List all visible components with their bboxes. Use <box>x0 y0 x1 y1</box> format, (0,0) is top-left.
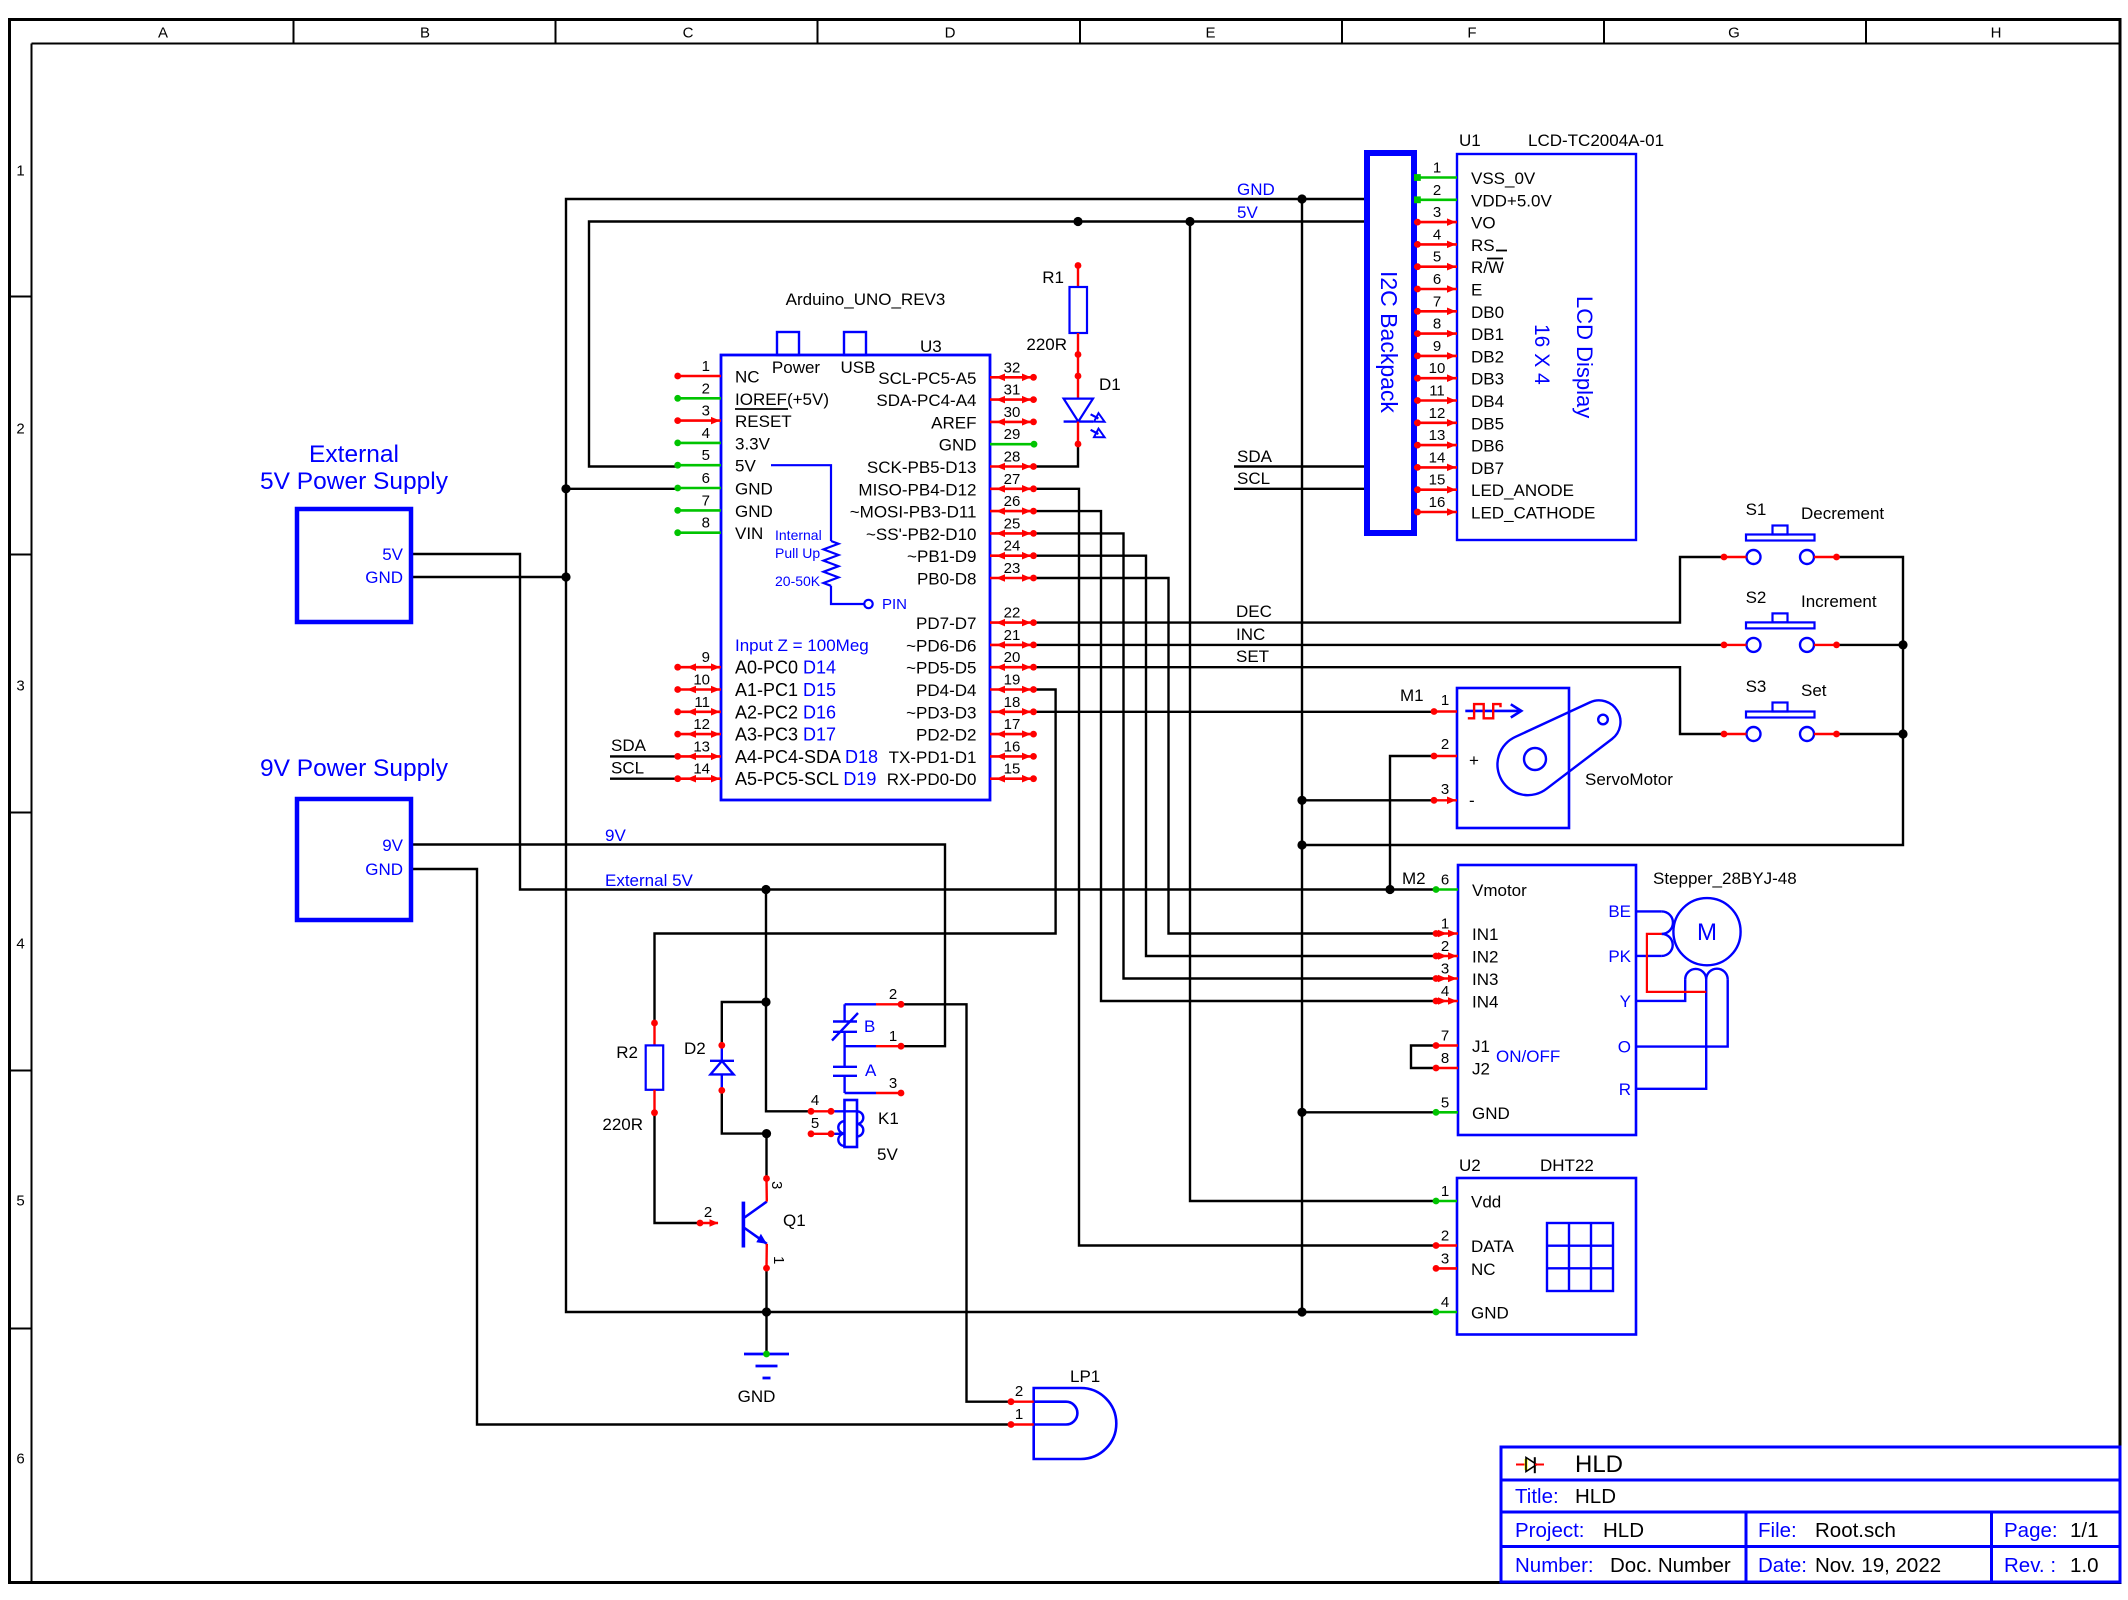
svg-text:5V: 5V <box>1237 203 1258 222</box>
relay contact B <box>832 1004 875 1040</box>
svg-text:5: 5 <box>16 1193 24 1210</box>
svg-text:NC: NC <box>1471 1260 1496 1279</box>
wire D12 to DHT22 DATA <box>1035 489 1434 1246</box>
wire 5V top <box>589 222 1367 467</box>
svg-text:R/W: R/W <box>1471 258 1504 277</box>
wire D3 to servo pin1 <box>1035 711 1434 713</box>
svg-text:U1: U1 <box>1459 131 1481 150</box>
svg-text:18: 18 <box>1004 694 1021 711</box>
svg-text:GND: GND <box>1237 180 1275 199</box>
svg-text:5: 5 <box>1433 249 1441 266</box>
arduino pin 1 stub <box>674 358 721 379</box>
svg-text:TX-PD1-D1: TX-PD1-D1 <box>889 748 977 767</box>
LP1 pin 2 stub <box>1008 1383 1034 1405</box>
svg-text:11: 11 <box>1429 383 1445 400</box>
junction 5V to DHT Vdd <box>1185 217 1194 226</box>
arduino right pin names <box>850 369 977 789</box>
arduino pin 22 stub <box>990 605 1037 627</box>
svg-text:HLD: HLD <box>1575 1485 1616 1508</box>
svg-text:Set: Set <box>1801 681 1827 700</box>
svg-text:1: 1 <box>1441 1183 1449 1200</box>
arduino pin 19 stub <box>990 672 1037 694</box>
svg-text:DB1: DB1 <box>1471 325 1504 344</box>
svg-text:5V: 5V <box>382 545 403 564</box>
svg-text:1/1: 1/1 <box>2070 1519 2099 1542</box>
svg-text:3: 3 <box>768 1181 785 1189</box>
servo motor M1 body <box>1400 686 1673 828</box>
lcd pin 1 stub <box>1414 160 1457 181</box>
svg-text:USB: USB <box>841 358 876 377</box>
wire External5V to relay coil pin4 <box>766 890 811 1112</box>
svg-text:U2: U2 <box>1459 1156 1481 1175</box>
Q1 collector pin 3 stub <box>763 1175 785 1202</box>
svg-text:SET: SET <box>1236 647 1269 666</box>
arduino pin 3 stub <box>674 403 721 425</box>
lcd pin 3 stub <box>1414 204 1457 226</box>
stepper winding Y-O-R coil <box>1636 969 1728 1089</box>
svg-text:24: 24 <box>1004 538 1021 555</box>
svg-text:R: R <box>1619 1080 1631 1099</box>
arduino pin 29 stub <box>990 426 1037 447</box>
relay contact A <box>833 1032 877 1093</box>
stepper pin 5 stub <box>1433 1094 1510 1123</box>
svg-text:12: 12 <box>1429 405 1446 422</box>
svg-text:Q1: Q1 <box>783 1211 806 1230</box>
svg-text:5: 5 <box>1441 1094 1449 1111</box>
arduino pin 30 stub <box>990 404 1037 426</box>
svg-text:6: 6 <box>1441 872 1449 889</box>
junction External5V to servo plus <box>1385 885 1394 894</box>
svg-text:DB4: DB4 <box>1471 392 1504 411</box>
svg-text:R2: R2 <box>616 1043 638 1062</box>
svg-text:5: 5 <box>702 447 710 464</box>
wire S3 right <box>1837 733 1903 735</box>
svg-text:SCL: SCL <box>1237 469 1270 488</box>
svg-text:PD4-D4: PD4-D4 <box>916 681 976 700</box>
svg-text:Decrement: Decrement <box>1801 504 1884 523</box>
svg-text:Increment: Increment <box>1801 592 1877 611</box>
svg-text:4: 4 <box>16 936 24 953</box>
wire stepper GND <box>1302 1111 1434 1113</box>
svg-text:O: O <box>1618 1038 1631 1057</box>
junction GND at DHT rail <box>1297 1307 1306 1316</box>
lcd pin 4 stub <box>1414 226 1457 248</box>
svg-text:Project:: Project: <box>1515 1519 1585 1542</box>
wire D2 bottom to Q1 collector node <box>722 1090 767 1133</box>
svg-text:5V: 5V <box>877 1145 898 1164</box>
svg-text:IN4: IN4 <box>1472 993 1498 1012</box>
svg-text:K1: K1 <box>878 1109 899 1128</box>
svg-text:3: 3 <box>1441 961 1449 978</box>
svg-text:2: 2 <box>1441 736 1449 753</box>
svg-text:12: 12 <box>693 716 710 733</box>
svg-text:19: 19 <box>1004 672 1021 689</box>
stepper pin 8 stub <box>1433 1050 1490 1079</box>
junction D2 anode relay coil Q1 collector <box>762 1129 771 1138</box>
arduino pin 24 stub <box>990 538 1037 560</box>
wire DEC net to S1 <box>1033 557 1724 623</box>
ground symbol <box>738 1351 789 1406</box>
svg-text:PD7-D7: PD7-D7 <box>916 614 976 633</box>
svg-text:1: 1 <box>889 1028 897 1045</box>
svg-text:~MOSI-PB3-D11: ~MOSI-PB3-D11 <box>850 503 977 522</box>
arduino pin 6 stub <box>674 470 721 491</box>
svg-text:7: 7 <box>702 492 710 509</box>
svg-text:A5-PC5-SCL D19: A5-PC5-SCL D19 <box>735 769 876 789</box>
External 5V power supply box <box>260 441 449 622</box>
wire 5V to DHT22 Vdd <box>1190 222 1434 1202</box>
svg-text:8: 8 <box>702 515 710 532</box>
arduino pin 9 stub <box>674 649 721 671</box>
svg-text:10: 10 <box>693 672 710 689</box>
LED D1 <box>1064 355 1121 448</box>
svg-text:LCD Display: LCD Display <box>1572 296 1597 418</box>
junction button rail S2 <box>1898 640 1907 649</box>
svg-text:31: 31 <box>1004 382 1021 399</box>
svg-text:S1: S1 <box>1746 500 1767 519</box>
svg-text:8: 8 <box>1433 316 1441 333</box>
relay contact pin 3 <box>845 1075 905 1096</box>
svg-text:1: 1 <box>702 358 710 375</box>
svg-text:M2: M2 <box>1402 869 1426 888</box>
svg-text:F: F <box>1467 25 1476 42</box>
svg-text:IN2: IN2 <box>1472 948 1498 967</box>
svg-text:3.3V: 3.3V <box>735 434 771 453</box>
diode D2 <box>684 1039 734 1094</box>
stepper pin 7 stub <box>1433 1028 1490 1057</box>
svg-text:PIN: PIN <box>882 596 907 613</box>
junction GND top rail <box>1297 194 1306 203</box>
svg-text:I2C Backpack: I2C Backpack <box>1376 271 1402 413</box>
svg-text:220R: 220R <box>1026 335 1067 354</box>
lcd pin 16 stub <box>1414 494 1457 516</box>
svg-text:4: 4 <box>1441 983 1449 1000</box>
svg-text:13: 13 <box>1429 427 1446 444</box>
arduino pin 28 stub <box>990 449 1037 471</box>
svg-text:D2: D2 <box>684 1039 706 1058</box>
junction GND at 5V supply <box>561 572 570 581</box>
svg-text:6: 6 <box>1433 271 1441 288</box>
svg-text:5V: 5V <box>735 457 756 476</box>
wire GND bus top and left <box>566 199 1434 1312</box>
stepper center tap red link <box>1647 934 1706 992</box>
svg-text:2: 2 <box>702 380 710 397</box>
lcd pin 11 stub <box>1414 383 1457 405</box>
svg-text:7: 7 <box>1433 293 1441 310</box>
svg-text:B: B <box>420 25 430 42</box>
wire GND vertical mid <box>1301 199 1303 1312</box>
svg-text:RESET: RESET <box>735 412 792 431</box>
junction 5V to R1 <box>1073 217 1082 226</box>
servo pwm pulse symbol <box>1465 704 1521 718</box>
servo pin 2 stub <box>1431 736 1479 770</box>
svg-text:ON/OFF: ON/OFF <box>1496 1047 1560 1066</box>
svg-text:Power: Power <box>772 358 821 377</box>
svg-text:External: External <box>309 441 399 468</box>
svg-text:U3: U3 <box>920 337 942 356</box>
svg-text:9V Power Supply: 9V Power Supply <box>260 755 449 782</box>
lcd pin 9 stub <box>1414 338 1457 360</box>
title block logo diode <box>1516 1457 1544 1473</box>
svg-text:7: 7 <box>1441 1028 1449 1045</box>
9V power supply box <box>260 755 449 920</box>
svg-text:SCK-PB5-D13: SCK-PB5-D13 <box>867 458 977 477</box>
junction External5V to relay coil <box>761 885 770 894</box>
wire Q1 collector node down <box>765 1134 767 1179</box>
svg-text:3: 3 <box>889 1075 897 1092</box>
wire D9 to stepper IN2 <box>1035 556 1434 956</box>
dht22 pin 3 stub <box>1433 1250 1496 1279</box>
wire GND rail to ground symbol <box>765 1312 767 1352</box>
dht22 pin 2 stub <box>1433 1228 1515 1257</box>
svg-text:SCL-PC5-A5: SCL-PC5-A5 <box>878 369 976 388</box>
wire servo pin2 to External 5V <box>1390 756 1434 890</box>
wire 5V supply GND <box>411 576 566 578</box>
svg-text:9V: 9V <box>605 826 626 845</box>
svg-text:Vdd: Vdd <box>1471 1193 1501 1212</box>
svg-text:10: 10 <box>1429 360 1446 377</box>
arduino pin 15 stub <box>990 761 1037 783</box>
arduino pin 21 stub <box>990 627 1037 649</box>
wire SDA to backpack <box>1234 465 1367 467</box>
DHT22 U2 body <box>1457 1156 1636 1335</box>
svg-text:Rev. :: Rev. : <box>2004 1554 2056 1577</box>
wire Q1 emitter to GND rail <box>765 1268 767 1312</box>
wire D8 to stepper IN1 <box>1035 578 1434 934</box>
wire SCL to backpack <box>1234 488 1367 490</box>
svg-text:DB7: DB7 <box>1471 459 1504 478</box>
junction button rail S3 <box>1898 729 1907 738</box>
arduino analog pin names <box>735 658 878 790</box>
svg-text:Internal: Internal <box>775 527 822 543</box>
svg-text:R1: R1 <box>1042 268 1064 287</box>
svg-text:VO: VO <box>1471 214 1496 233</box>
svg-text:GND: GND <box>365 568 403 587</box>
relay K1 coil <box>835 1100 899 1164</box>
arduino pin 13 stub <box>674 738 721 760</box>
wire SET net to S3 <box>1033 667 1724 734</box>
svg-text:3: 3 <box>1441 781 1449 798</box>
svg-text:INC: INC <box>1236 625 1265 644</box>
svg-text:LP1: LP1 <box>1070 1367 1100 1386</box>
svg-text:PB0-D8: PB0-D8 <box>917 570 977 589</box>
title block texts <box>1515 1451 2099 1577</box>
svg-text:B: B <box>864 1017 875 1036</box>
svg-text:E: E <box>1205 25 1215 42</box>
lcd pin 2 stub <box>1414 182 1457 203</box>
svg-text:5V Power Supply: 5V Power Supply <box>260 468 449 495</box>
lcd pin names <box>1471 169 1595 523</box>
svg-text:9: 9 <box>702 649 710 666</box>
svg-text:3: 3 <box>16 678 24 695</box>
servo pin 3 stub <box>1431 781 1475 810</box>
svg-text:E: E <box>1471 281 1482 300</box>
svg-text:DEC: DEC <box>1236 602 1272 621</box>
svg-text:HLD: HLD <box>1603 1519 1644 1542</box>
svg-text:S2: S2 <box>1746 588 1767 607</box>
svg-text:2: 2 <box>1433 182 1441 199</box>
svg-text:1: 1 <box>1433 160 1441 177</box>
Q1 base pin 2 stub <box>697 1204 719 1227</box>
wire D13 to LED D1 <box>1035 444 1078 467</box>
svg-text:Input Z = 100Meg: Input Z = 100Meg <box>735 636 869 655</box>
svg-text:20: 20 <box>1004 649 1021 666</box>
svg-text:A0-PC0 D14: A0-PC0 D14 <box>735 658 836 678</box>
wire D4 to Q1 base resistor R2 <box>655 690 1056 1024</box>
svg-text:VDD+5.0V: VDD+5.0V <box>1471 191 1552 210</box>
svg-text:Arduino_UNO_REV3: Arduino_UNO_REV3 <box>786 290 946 309</box>
wire D2 top to +5V ext <box>722 1002 766 1045</box>
svg-text:28: 28 <box>1004 449 1021 466</box>
svg-text:GND: GND <box>1472 1104 1510 1123</box>
svg-text:M: M <box>1697 919 1717 946</box>
svg-text:6: 6 <box>702 470 710 487</box>
lcd pin 5 stub <box>1414 249 1457 271</box>
stepper pin 3 stub <box>1433 961 1499 990</box>
svg-text:16 X 4: 16 X 4 <box>1530 324 1553 385</box>
junction GND at Q1 emitter <box>762 1307 771 1316</box>
lcd pin 7 stub <box>1414 293 1457 315</box>
junction GND at servo minus <box>1297 796 1306 805</box>
wire 9V supply GND to LP1 <box>411 869 1011 1425</box>
pushbutton S1 <box>1721 500 1885 564</box>
relay contact pin 2 <box>845 986 905 1008</box>
svg-text:16: 16 <box>1429 494 1446 511</box>
wire R2 bottom to Q1 base <box>655 1113 701 1223</box>
arduino pin 5 stub <box>674 447 721 468</box>
svg-text:4: 4 <box>811 1092 819 1109</box>
svg-text:~PD5-D5: ~PD5-D5 <box>906 659 976 678</box>
svg-text:2: 2 <box>704 1204 712 1221</box>
svg-text:~SS'-PB2-D10: ~SS'-PB2-D10 <box>866 525 977 544</box>
svg-text:GND: GND <box>735 502 773 521</box>
svg-text:4: 4 <box>702 425 710 442</box>
transistor Q1 <box>743 1202 805 1248</box>
dht22 pin 4 stub <box>1433 1294 1509 1323</box>
svg-text:ServoMotor: ServoMotor <box>1585 770 1673 789</box>
svg-text:15: 15 <box>1429 472 1446 489</box>
arduino pin 11 stub <box>674 694 721 716</box>
dht22 sensor grid icon <box>1547 1223 1613 1291</box>
svg-text:8: 8 <box>1441 1050 1449 1067</box>
svg-text:DB0: DB0 <box>1471 303 1504 322</box>
wire buttons common rail <box>1302 557 1903 845</box>
stepper motor circle M <box>1673 898 1740 965</box>
svg-text:~PD6-D6: ~PD6-D6 <box>906 636 976 655</box>
arduino pin 18 stub <box>990 694 1037 716</box>
svg-text:Doc. Number: Doc. Number <box>1610 1554 1731 1577</box>
svg-text:1: 1 <box>770 1256 787 1264</box>
arduino pin 20 stub <box>990 649 1037 671</box>
svg-text:220R: 220R <box>602 1115 643 1134</box>
svg-text:Stepper_28BYJ-48: Stepper_28BYJ-48 <box>1653 869 1797 888</box>
svg-text:4: 4 <box>1441 1294 1449 1311</box>
dht22 pin 1 stub <box>1433 1183 1502 1212</box>
svg-text:PD2-D2: PD2-D2 <box>916 726 976 745</box>
arduino pin 8 stub <box>674 515 721 536</box>
svg-text:GND: GND <box>365 860 403 879</box>
svg-text:Date:: Date: <box>1758 1554 1807 1577</box>
junction GND at arduino pin6 <box>561 484 570 493</box>
servo horn <box>1497 700 1620 795</box>
svg-text:GND: GND <box>939 436 977 455</box>
wire SCL stub at arduino <box>610 778 678 780</box>
Q1 emitter pin 1 stub <box>763 1244 787 1272</box>
svg-text:J2: J2 <box>1472 1060 1490 1079</box>
svg-text:J1: J1 <box>1472 1037 1490 1056</box>
svg-text:BE: BE <box>1608 902 1631 921</box>
junction GND button rail <box>1297 840 1306 849</box>
svg-text:AREF: AREF <box>931 413 976 432</box>
svg-text:External 5V: External 5V <box>605 871 694 890</box>
svg-text:3: 3 <box>1441 1250 1449 1267</box>
svg-text:A2-PC2 D16: A2-PC2 D16 <box>735 702 836 722</box>
svg-text:4: 4 <box>1433 226 1441 243</box>
svg-text:23: 23 <box>1004 560 1021 577</box>
svg-text:SCL: SCL <box>611 759 644 778</box>
svg-text:GND: GND <box>738 1387 776 1406</box>
svg-text:Title:: Title: <box>1515 1485 1559 1508</box>
svg-text:PK: PK <box>1608 947 1631 966</box>
junction GND at stepper <box>1297 1108 1306 1117</box>
svg-text:GND: GND <box>735 480 773 499</box>
junction ext5V to D2 cathode <box>761 997 770 1006</box>
relay coil pin 4 stub <box>808 1092 835 1115</box>
svg-text:IN3: IN3 <box>1472 970 1498 989</box>
servo pin 1 stub <box>1431 692 1457 715</box>
svg-text:30: 30 <box>1004 404 1021 421</box>
svg-text:A4-PC4-SDA D18: A4-PC4-SDA D18 <box>735 747 878 767</box>
svg-text:SDA: SDA <box>1237 447 1273 466</box>
resistor R2 <box>602 1020 663 1134</box>
stepper pin 4 stub <box>1433 983 1499 1012</box>
svg-text:2: 2 <box>1441 938 1449 955</box>
wire relay contact pin2 to LP1 pin2 <box>901 1004 1011 1401</box>
svg-text:IN1: IN1 <box>1472 925 1498 944</box>
svg-text:15: 15 <box>1004 761 1021 778</box>
svg-text:DB3: DB3 <box>1471 370 1504 389</box>
svg-text:A3-PC3 D17: A3-PC3 D17 <box>735 725 836 745</box>
pushbutton S3 <box>1721 677 1840 741</box>
svg-text:A: A <box>865 1061 877 1080</box>
svg-text:20-50K: 20-50K <box>775 573 821 589</box>
svg-text:RX-PD0-D0: RX-PD0-D0 <box>887 770 977 789</box>
svg-text:1: 1 <box>1441 692 1449 709</box>
svg-text:RS: RS <box>1471 236 1495 255</box>
svg-text:25: 25 <box>1004 515 1021 532</box>
svg-text:SDA: SDA <box>611 736 647 755</box>
svg-text:6: 6 <box>16 1451 24 1468</box>
lcd pin 13 stub <box>1414 427 1457 449</box>
arduino pin 25 stub <box>990 515 1037 537</box>
svg-text:Nov. 19, 2022: Nov. 19, 2022 <box>1815 1554 1941 1577</box>
wire 9V supply output to relay common <box>411 845 945 1047</box>
svg-text:1: 1 <box>1441 916 1449 933</box>
svg-text:5: 5 <box>811 1115 819 1132</box>
arduino pin 23 stub <box>990 560 1037 582</box>
arduino pin 4 stub <box>674 425 721 446</box>
svg-text:H: H <box>1991 25 2002 42</box>
svg-text:LED_CATHODE: LED_CATHODE <box>1471 504 1595 523</box>
column letters <box>158 25 2001 42</box>
svg-text:A1-PC1 D15: A1-PC1 D15 <box>735 680 836 700</box>
arduino pin 16 stub <box>990 738 1037 760</box>
arduino U3 body <box>721 290 990 800</box>
svg-text:NC: NC <box>735 368 760 387</box>
relay coil pin 5 stub <box>808 1115 835 1137</box>
arduino pin 7 stub <box>674 492 721 513</box>
row numbers <box>16 163 24 1468</box>
